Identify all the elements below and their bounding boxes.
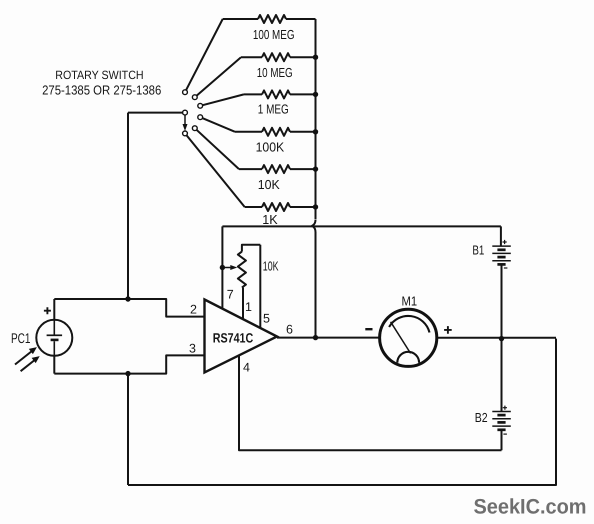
svg-text:5: 5 — [263, 311, 270, 325]
svg-text:1K: 1K — [262, 212, 278, 227]
svg-text:10K: 10K — [263, 259, 279, 274]
svg-text:7: 7 — [227, 287, 234, 301]
svg-text:1: 1 — [245, 300, 252, 314]
svg-text:4: 4 — [243, 360, 250, 374]
svg-text:SeekIC.com: SeekIC.com — [474, 496, 587, 519]
svg-text:3: 3 — [189, 341, 196, 355]
svg-text:B2: B2 — [475, 410, 488, 425]
svg-text:ROTARY SWITCH: ROTARY SWITCH — [55, 68, 143, 82]
svg-text:RS741C: RS741C — [213, 331, 254, 346]
svg-text:10K: 10K — [258, 177, 280, 192]
svg-text:B1: B1 — [472, 242, 484, 257]
svg-text:275-1385 OR 275-1386: 275-1385 OR 275-1386 — [42, 82, 161, 97]
svg-text:100 MEG: 100 MEG — [253, 27, 295, 42]
svg-text:100K: 100K — [256, 140, 285, 155]
svg-text:2: 2 — [190, 303, 197, 317]
svg-text:10 MEG: 10 MEG — [257, 65, 293, 80]
svg-text:1 MEG: 1 MEG — [258, 101, 289, 116]
svg-text:M1: M1 — [402, 293, 418, 308]
svg-text:PC1: PC1 — [11, 330, 31, 346]
svg-text:6: 6 — [286, 323, 293, 337]
